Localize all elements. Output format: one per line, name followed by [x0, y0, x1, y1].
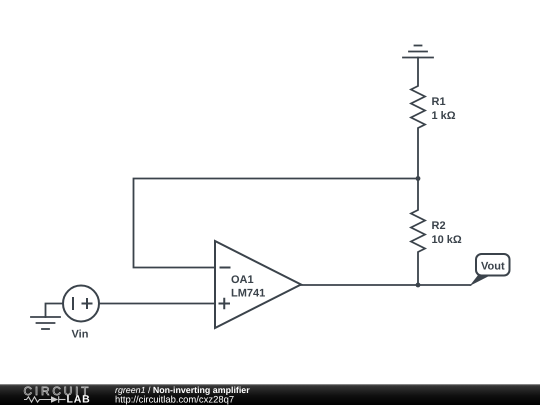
- svg-text:R1: R1: [432, 96, 446, 108]
- svg-text:R2: R2: [432, 220, 446, 232]
- resistor R2: [411, 179, 425, 286]
- svg-text:1 kΩ: 1 kΩ: [432, 110, 456, 122]
- voltage source V1 (Vin): [63, 286, 99, 322]
- ground (top, above R1): [403, 46, 433, 58]
- wire Vin to ground: [46, 304, 64, 318]
- svg-text:Vin: Vin: [72, 329, 89, 341]
- svg-text:OA1: OA1: [231, 274, 254, 286]
- ground (bottom, at Vin): [31, 317, 60, 329]
- CircuitLab logo zigzag + diode: [24, 396, 66, 403]
- svg-text:10 kΩ: 10 kΩ: [432, 234, 462, 246]
- svg-text:Vout: Vout: [481, 260, 505, 272]
- svg-text:http://circuitlab.com/cxz28q7: http://circuitlab.com/cxz28q7: [115, 394, 234, 405]
- wire op-amp output to Vout: [301, 284, 471, 286]
- wire feedback from node A to op-amp inverting input: [134, 179, 419, 268]
- op-amp OA1: [215, 241, 301, 328]
- svg-text:LM741: LM741: [231, 288, 265, 300]
- footer bar: [0, 384, 540, 405]
- voltage source plus sign: [82, 298, 93, 309]
- svg-text:LAB: LAB: [67, 394, 91, 405]
- node A junction dot: [416, 176, 421, 181]
- voltage source minus bar: [72, 297, 74, 310]
- resistor R1: [411, 58, 425, 179]
- label OA1 LM741: [231, 274, 265, 300]
- wire Vin to op-amp non-inverting input: [99, 303, 215, 305]
- net flag Vout tail: [470, 275, 493, 287]
- label R2 value: [432, 220, 462, 246]
- label R1 value: [432, 96, 456, 122]
- op-amp minus input marker: [220, 267, 231, 269]
- op-amp plus input marker: [219, 298, 231, 310]
- node B junction dot: [416, 283, 421, 288]
- net flag Vout box: [476, 254, 510, 276]
